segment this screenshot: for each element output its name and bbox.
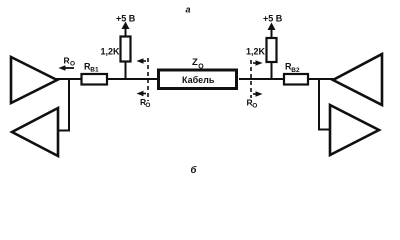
- wire: right pull-up lead: [271, 38, 273, 79]
- svg-text:О: О: [145, 102, 150, 109]
- svg-text:1,2K: 1,2K: [246, 47, 266, 57]
- svg-text:О: О: [198, 64, 204, 71]
- node: right measurement plane (dashed): [250, 60, 252, 98]
- svg-text:+5 В: +5 В: [263, 14, 283, 24]
- wire: main line right (cable to receiver): [239, 78, 334, 80]
- svg-text:О: О: [70, 61, 75, 68]
- buffer U3 (right top, points left toward line): [333, 54, 382, 105]
- power +5V right arrow: [271, 28, 273, 38]
- wire: right stub down to local driver output: [319, 79, 330, 130]
- arrow R0 at driver output (points left into driver): [61, 67, 74, 69]
- svg-text:Кабель: Кабель: [182, 75, 215, 85]
- resistor 1,2K right (vertical box): [267, 38, 277, 62]
- arrow R0 left-top (points left): [140, 60, 146, 62]
- svg-text:О: О: [252, 102, 257, 109]
- svg-text:В1: В1: [90, 66, 99, 73]
- arrow R0 left-bottom (points left): [140, 93, 146, 95]
- buffer U1 (left driver, points right): [11, 57, 57, 103]
- resistor RB1 (horizontal box): [82, 74, 108, 85]
- svg-text:1,2K: 1,2K: [101, 46, 121, 56]
- cable box Z0: [159, 70, 237, 89]
- power +5V left arrow: [125, 27, 127, 37]
- wire: left stub down to local receiver input: [58, 79, 69, 131]
- svg-text:+5 В: +5 В: [116, 14, 136, 24]
- resistor RB2 (horizontal box): [284, 74, 308, 85]
- wire: left pull-up lead: [125, 37, 127, 80]
- svg-text:R: R: [64, 56, 70, 66]
- buffer U4 (right bottom, points right): [330, 105, 379, 155]
- svg-text:а: а: [186, 5, 191, 15]
- wire: main line left (driver output to cable): [56, 78, 158, 80]
- resistor 1,2K left (vertical box): [121, 37, 131, 62]
- svg-text:Z: Z: [192, 57, 198, 68]
- node: left measurement plane (dashed): [147, 58, 149, 101]
- arrow R0 right-top (points right): [253, 62, 259, 64]
- svg-text:В2: В2: [291, 67, 300, 74]
- buffer U2 (left receiver, points left): [12, 108, 58, 156]
- arrow R0 right-bottom (points right): [253, 93, 259, 95]
